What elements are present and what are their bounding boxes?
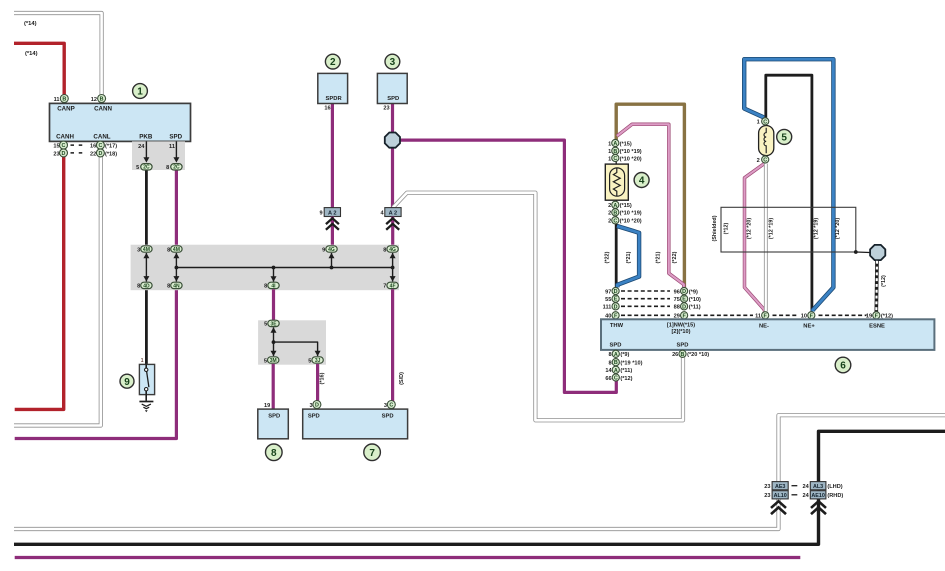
component 5 coil symbol xyxy=(764,128,766,153)
svg-text:16: 16 xyxy=(90,144,96,150)
svg-text:(*12 *20): (*12 *20) xyxy=(747,218,753,239)
junction connector block 3 grey box xyxy=(258,320,326,364)
svg-text:23: 23 xyxy=(764,493,770,499)
svg-text:22: 22 xyxy=(90,151,96,157)
svg-text:9: 9 xyxy=(322,247,325,253)
ground symbol below switch 9 xyxy=(145,395,147,401)
svg-text:A: A xyxy=(613,203,617,209)
svg-text:(*10 *20): (*10 *20) xyxy=(620,156,642,162)
svg-text:(*14): (*14) xyxy=(25,51,38,57)
svg-text:C: C xyxy=(613,218,617,224)
svg-text:(*22): (*22) xyxy=(672,251,678,263)
svg-text:23: 23 xyxy=(383,105,389,111)
shielded cable box xyxy=(721,207,856,252)
svg-text:CANP: CANP xyxy=(57,106,75,113)
wire CANP red (*14) from top-left to component 1 pin 11 xyxy=(14,43,64,95)
component 1 control module box xyxy=(50,103,191,141)
svg-text:15: 15 xyxy=(53,144,59,150)
svg-text:8: 8 xyxy=(264,284,267,290)
component 4 speed sensor box xyxy=(605,164,628,200)
component 1 number circle xyxy=(133,84,148,99)
svg-text:4N: 4N xyxy=(173,283,180,289)
svg-text:4M: 4M xyxy=(143,247,150,253)
grommet chevrons white riser xyxy=(771,501,786,508)
svg-text:(*19 *10): (*19 *10) xyxy=(620,361,642,367)
component 3 number circle xyxy=(385,54,400,69)
svg-text:9: 9 xyxy=(124,377,130,388)
component 8 number circle xyxy=(266,444,283,461)
component 9 number circle xyxy=(120,374,134,388)
svg-text:(*10 *20): (*10 *20) xyxy=(620,219,642,225)
svg-text:7: 7 xyxy=(369,448,375,459)
svg-text:B: B xyxy=(681,352,685,358)
wire SPD white from ECM pin 26B up and left to connector A2 pin 4 xyxy=(393,193,683,421)
wire SPD purple from component 3 through junction to connector A2 pin 4 xyxy=(391,104,394,209)
svg-text:96: 96 xyxy=(674,289,680,295)
svg-text:1: 1 xyxy=(608,156,611,162)
component 7 number circle xyxy=(364,444,381,461)
svg-text:4I: 4I xyxy=(271,283,276,289)
svg-text:16: 16 xyxy=(324,105,330,111)
svg-text:D: D xyxy=(614,289,618,295)
component 3 box SPD xyxy=(377,73,407,103)
junction block branch up to 4G pin9 xyxy=(331,253,333,268)
svg-text:A 2: A 2 xyxy=(328,210,337,216)
svg-text:(*20 *10): (*20 *10) xyxy=(687,352,709,358)
svg-text:5: 5 xyxy=(264,358,267,364)
component 8 box SPD xyxy=(258,409,289,439)
svg-text:C: C xyxy=(763,119,767,125)
svg-text:24: 24 xyxy=(138,144,145,150)
wire purple 3M to component 8 pin 19 xyxy=(272,364,275,409)
wire CANL white from pin 16/22 down and left to stub xyxy=(14,156,101,426)
junction block column PKB through 4M-4D xyxy=(145,253,147,282)
svg-text:9: 9 xyxy=(319,211,322,217)
svg-text:[1]NW(*15): [1]NW(*15) xyxy=(667,323,695,329)
svg-text:D: D xyxy=(62,151,66,157)
wire black component 4 pin 2 down to ECM pin 97D xyxy=(615,224,618,287)
svg-text:SPD: SPD xyxy=(677,342,689,348)
wire pink component 5 pin 2 to ECM pin 11F NE- xyxy=(745,164,765,312)
svg-text:C: C xyxy=(62,143,66,149)
svg-text:8: 8 xyxy=(383,247,386,253)
svg-text:24: 24 xyxy=(802,493,809,499)
wire black component 5 pin 1 loop to ECM pin 10F NE+ xyxy=(766,75,812,311)
svg-text:SPD: SPD xyxy=(610,342,622,348)
svg-text:7: 7 xyxy=(383,284,386,290)
component 2 number circle xyxy=(325,54,340,69)
junction block 3 internal wiring xyxy=(273,327,275,356)
svg-text:26: 26 xyxy=(672,352,678,358)
svg-text:CANL: CANL xyxy=(93,134,110,141)
bus junction dots xyxy=(175,266,179,270)
svg-text:C: C xyxy=(613,156,617,162)
svg-text:E: E xyxy=(682,297,686,303)
svg-text:SPD: SPD xyxy=(387,96,399,102)
svg-text:11: 11 xyxy=(54,97,60,103)
wire brown from component 4 pin 1A loop to ECM pin 96D xyxy=(616,104,684,287)
svg-text:D: D xyxy=(682,304,686,310)
component 5 sensor coil box xyxy=(759,126,774,156)
svg-text:SPDR: SPDR xyxy=(326,96,343,102)
svg-text:(*12 *19): (*12 *19) xyxy=(769,218,775,239)
svg-text:THW: THW xyxy=(610,323,624,329)
svg-text:2: 2 xyxy=(757,158,760,164)
svg-text:B: B xyxy=(613,210,617,216)
svg-text:D: D xyxy=(315,403,319,409)
svg-text:(*9): (*9) xyxy=(689,289,698,295)
svg-text:C: C xyxy=(614,376,618,382)
svg-text:2C: 2C xyxy=(173,165,180,171)
svg-text:(*12 *19): (*12 *19) xyxy=(814,218,820,239)
svg-text:C: C xyxy=(389,403,393,409)
shield drain striped wire to ECM pin 19F xyxy=(874,261,878,312)
wire SPD purple branch from junction right then down to ECM pin 66C xyxy=(398,140,616,392)
svg-text:(*10 *19): (*10 *19) xyxy=(620,211,642,217)
wire purple 4I down to 3E xyxy=(272,289,275,320)
bus wire white bottom to right riser xyxy=(14,415,945,529)
svg-text:AE3: AE3 xyxy=(775,484,786,490)
svg-text:(*15): (*15) xyxy=(620,141,632,147)
svg-text:AL10: AL10 xyxy=(774,493,787,499)
svg-text:[2](*10): [2](*10) xyxy=(672,329,691,335)
svg-text:(*16): (*16) xyxy=(320,372,326,384)
svg-text:(*10 *19): (*10 *19) xyxy=(620,149,642,155)
svg-text:E: E xyxy=(614,297,618,303)
svg-text:24: 24 xyxy=(802,484,809,490)
junction connector block 2C grey box xyxy=(132,141,185,170)
svg-text:3M: 3M xyxy=(270,358,277,364)
svg-text:A: A xyxy=(613,141,617,147)
component 6 number circle xyxy=(835,357,851,373)
junction connector block 4 grey box xyxy=(131,245,399,291)
svg-text:AE10: AE10 xyxy=(811,493,825,499)
svg-text:1: 1 xyxy=(608,149,611,155)
svg-text:4G: 4G xyxy=(389,247,396,253)
component 4 number circle xyxy=(634,173,649,188)
grommet chevrons below A2 pin 9 xyxy=(326,218,339,224)
svg-text:2: 2 xyxy=(608,203,611,209)
svg-text:8: 8 xyxy=(608,352,611,358)
shield drain line to ground octagon xyxy=(856,251,870,254)
junction block column through 4G-4F xyxy=(392,253,394,282)
svg-text:4M: 4M xyxy=(173,247,180,253)
svg-text:A 2: A 2 xyxy=(389,210,398,216)
svg-text:(*17): (*17) xyxy=(105,144,117,150)
svg-text:2: 2 xyxy=(608,211,611,217)
svg-text:6: 6 xyxy=(840,361,846,372)
component 4 pin wire stubs xyxy=(615,140,617,164)
svg-text:1: 1 xyxy=(137,87,143,98)
svg-text:(*12 *20): (*12 *20) xyxy=(835,218,841,239)
svg-text:1: 1 xyxy=(141,358,144,364)
svg-text:8: 8 xyxy=(608,361,611,367)
svg-text:CANN: CANN xyxy=(94,106,112,113)
svg-text:3: 3 xyxy=(309,403,312,409)
svg-text:14: 14 xyxy=(605,368,612,374)
svg-text:(*21): (*21) xyxy=(656,251,662,263)
svg-text:NE-: NE- xyxy=(759,324,769,330)
svg-text:D: D xyxy=(682,289,686,295)
svg-text:(*11): (*11) xyxy=(689,305,701,311)
wire PKB black from connector 2C down to switch 9 xyxy=(145,168,148,365)
wire purple A2 pin9 through grommet xyxy=(331,217,334,247)
svg-text:8: 8 xyxy=(271,448,277,459)
wire SPDR purple from component 2 to connector A2 pin 9 xyxy=(331,104,334,209)
svg-text:D: D xyxy=(98,151,102,157)
wire blue component 4 pin 2 jog down to ECM pin 97D xyxy=(617,226,639,287)
svg-text:(*10): (*10) xyxy=(689,297,701,303)
wire purple A2 pin4 through grommet xyxy=(391,217,394,247)
svg-text:75: 75 xyxy=(674,297,680,303)
ECM alternate-pin dashed rows xyxy=(621,290,670,292)
shield ground octagon node xyxy=(870,245,885,260)
svg-text:3: 3 xyxy=(137,247,140,253)
svg-text:(*22): (*22) xyxy=(605,251,611,263)
svg-text:5: 5 xyxy=(264,322,267,328)
svg-text:3J: 3J xyxy=(315,358,321,364)
svg-text:5: 5 xyxy=(136,165,139,171)
component 6 ECM box xyxy=(601,319,934,350)
wire CANH red from pin 15/23 down and left to stub xyxy=(15,156,64,409)
svg-text:55: 55 xyxy=(605,297,611,303)
svg-text:4D: 4D xyxy=(143,283,150,289)
svg-text:(*9): (*9) xyxy=(620,352,629,358)
svg-text:(*12): (*12) xyxy=(723,222,729,234)
svg-text:CANH: CANH xyxy=(56,134,74,141)
svg-text:C: C xyxy=(98,143,102,149)
svg-text:8: 8 xyxy=(167,247,170,253)
component 5 number circle xyxy=(777,129,792,144)
svg-text:(*12): (*12) xyxy=(620,376,632,382)
svg-text:SPD: SPD xyxy=(268,413,280,419)
wire blue component 5 pin 1 loop to ECM pin 10F NE+ xyxy=(744,59,833,311)
svg-text:2C: 2C xyxy=(143,165,150,171)
svg-text:3: 3 xyxy=(390,57,396,68)
svg-text:11: 11 xyxy=(169,144,175,150)
bus wire purple bottom stub xyxy=(15,556,801,559)
svg-text:4: 4 xyxy=(639,176,645,187)
wire pink from component 4 pin 1 to ECM pin 96D xyxy=(617,124,684,287)
junction block internal bus wire xyxy=(176,267,392,269)
wire white component 5 pin 2 to ECM pin 11F NE- xyxy=(764,164,768,312)
svg-text:88: 88 xyxy=(674,305,680,311)
svg-text:111: 111 xyxy=(603,305,612,311)
svg-text:AL3: AL3 xyxy=(813,484,823,490)
wire SPD into 2C with arrow xyxy=(175,141,177,158)
svg-text:23: 23 xyxy=(53,151,59,157)
svg-text:ESNE: ESNE xyxy=(869,324,885,330)
junction node octagon on SPD wire xyxy=(385,133,400,148)
component 4 resistor zigzag symbol xyxy=(613,168,620,196)
svg-text:(*18): (*18) xyxy=(105,151,117,157)
svg-text:12: 12 xyxy=(91,97,97,103)
svg-text:A: A xyxy=(614,368,618,374)
svg-text:(*11): (*11) xyxy=(620,368,632,374)
component 7 box SPD SPD xyxy=(303,409,408,439)
svg-text:1: 1 xyxy=(608,141,611,147)
wire CANN white (*14) from top-left to component 1 pin 12 xyxy=(14,13,102,95)
svg-text:4F: 4F xyxy=(390,283,396,289)
svg-text:D: D xyxy=(614,304,618,310)
svg-text:A: A xyxy=(614,352,618,358)
svg-text:8: 8 xyxy=(167,284,170,290)
bus wire black bottom to right riser xyxy=(14,431,945,544)
svg-text:(LHD): (LHD) xyxy=(827,484,842,490)
svg-text:19: 19 xyxy=(264,403,270,409)
svg-text:66: 66 xyxy=(605,376,611,382)
svg-text:B: B xyxy=(100,97,104,103)
svg-text:SPD: SPD xyxy=(308,413,320,419)
svg-text:(*15): (*15) xyxy=(620,203,632,209)
switch contacts and lever xyxy=(145,364,147,368)
svg-text:C: C xyxy=(763,158,767,164)
svg-text:8: 8 xyxy=(137,284,140,290)
wire purple 4F to component 7 pin 3C, label (S/D) xyxy=(391,289,394,409)
svg-text:(*12): (*12) xyxy=(881,275,887,287)
component 2 box SPDR xyxy=(318,73,348,103)
grommet chevrons below A2 pin 4 xyxy=(386,218,399,224)
svg-text:NE+: NE+ xyxy=(803,324,815,330)
svg-text:(*21): (*21) xyxy=(626,251,632,263)
svg-text:(Shielded): (Shielded) xyxy=(712,215,718,241)
svg-text:2: 2 xyxy=(330,57,336,68)
svg-text:B: B xyxy=(62,97,66,103)
svg-text:SPD: SPD xyxy=(382,413,394,419)
svg-text:97: 97 xyxy=(605,289,611,295)
svg-text:8: 8 xyxy=(166,165,169,171)
wire SPD purple from connector 2C down, left stub xyxy=(15,168,177,439)
svg-text:1: 1 xyxy=(757,120,760,126)
svg-text:SPD: SPD xyxy=(169,134,182,141)
wire PKB into 2C with arrow xyxy=(145,141,147,158)
wire purple 3J to component 7 pin 3D, label (*16) xyxy=(316,364,319,409)
junction block branch down to 4I xyxy=(273,268,275,282)
grommet chevrons black riser xyxy=(811,501,826,508)
svg-text:(S/D): (S/D) xyxy=(399,372,405,385)
junction block column SPD through 4M-4N xyxy=(175,253,177,282)
svg-text:4G: 4G xyxy=(328,247,335,253)
svg-text:3: 3 xyxy=(384,403,387,409)
svg-text:5: 5 xyxy=(308,358,311,364)
svg-text:B: B xyxy=(614,360,618,366)
svg-text:PKB: PKB xyxy=(139,134,153,141)
svg-text:(*14): (*14) xyxy=(24,21,37,27)
svg-text:2: 2 xyxy=(608,219,611,225)
svg-text:(RHD): (RHD) xyxy=(827,493,843,499)
svg-text:3E: 3E xyxy=(270,321,277,327)
svg-text:23: 23 xyxy=(764,484,770,490)
svg-text:5: 5 xyxy=(781,133,787,144)
